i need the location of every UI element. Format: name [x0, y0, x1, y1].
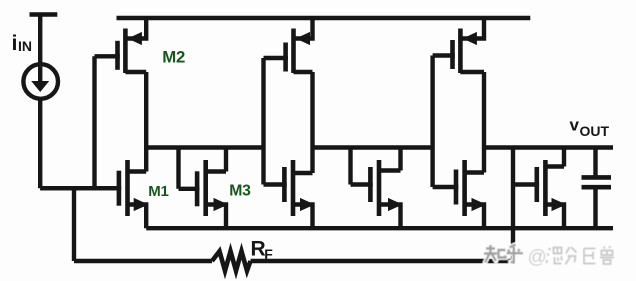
label RF — [251, 237, 274, 261]
current source iIN circle — [23, 64, 58, 99]
label vOUT — [570, 116, 610, 139]
transistor P3 (PMOS) — [433, 18, 484, 73]
transistor M2 (PMOS) — [95, 18, 147, 73]
wire iIN top lead — [38, 15, 42, 64]
transistor M3 (NMOS diode) — [179, 160, 229, 228]
svg-text:M1: M1 — [148, 183, 168, 200]
wire feedback left — [74, 259, 212, 263]
svg-text:M2: M2 — [162, 48, 185, 67]
wire feedback down-leg — [72, 186, 76, 261]
label iIN — [12, 31, 33, 55]
svg-text:IN: IN — [18, 38, 32, 54]
transistor N5 (NMOS) — [433, 160, 487, 228]
svg-text:M3: M3 — [229, 183, 251, 200]
wire stage3 gate vertical — [430, 56, 434, 188]
resistor RF — [212, 251, 251, 271]
current source iIN top bar — [30, 12, 58, 16]
svg-text:v: v — [570, 116, 580, 135]
wire stage1 output (node A) — [146, 145, 263, 149]
wire N4 gate jog — [348, 148, 352, 185]
wire M2 gate to input node — [92, 56, 96, 188]
watermark zhihu — [484, 245, 614, 269]
wire stage2 output (node B) — [313, 145, 433, 149]
capacitor CL — [582, 148, 612, 229]
transistor N4 (NMOS diode) — [351, 160, 403, 228]
wire vOUT to N6 gate / feedback vertical — [511, 148, 515, 262]
wire stage2 gate vertical — [261, 58, 265, 185]
wire stage1 drain vertical — [144, 72, 148, 172]
wire N4 drain up — [398, 148, 402, 171]
transistor N3 (NMOS) — [264, 160, 315, 228]
svg-text:@: @ — [528, 247, 547, 268]
transistor M1 (NMOS) — [40, 160, 148, 228]
wire stage3 drain vertical — [482, 72, 486, 173]
wire feedback right — [251, 259, 514, 263]
wire VDD top rail — [117, 16, 531, 20]
wire bottom rail — [146, 226, 613, 230]
transistor P2 (PMOS) — [264, 18, 313, 73]
svg-text:OUT: OUT — [580, 123, 610, 139]
wire input node — [40, 186, 116, 190]
wire iIN bottom lead — [38, 98, 42, 189]
wire output node vOUT — [484, 145, 613, 149]
wire M3 drain up — [224, 148, 228, 172]
svg-text:i: i — [12, 31, 18, 55]
wire M3 gate jog — [176, 148, 180, 189]
transistor N6 (NMOS diode) — [513, 160, 566, 228]
wire N6 drain up — [562, 148, 566, 167]
wire stage2 drain vertical — [310, 72, 314, 173]
